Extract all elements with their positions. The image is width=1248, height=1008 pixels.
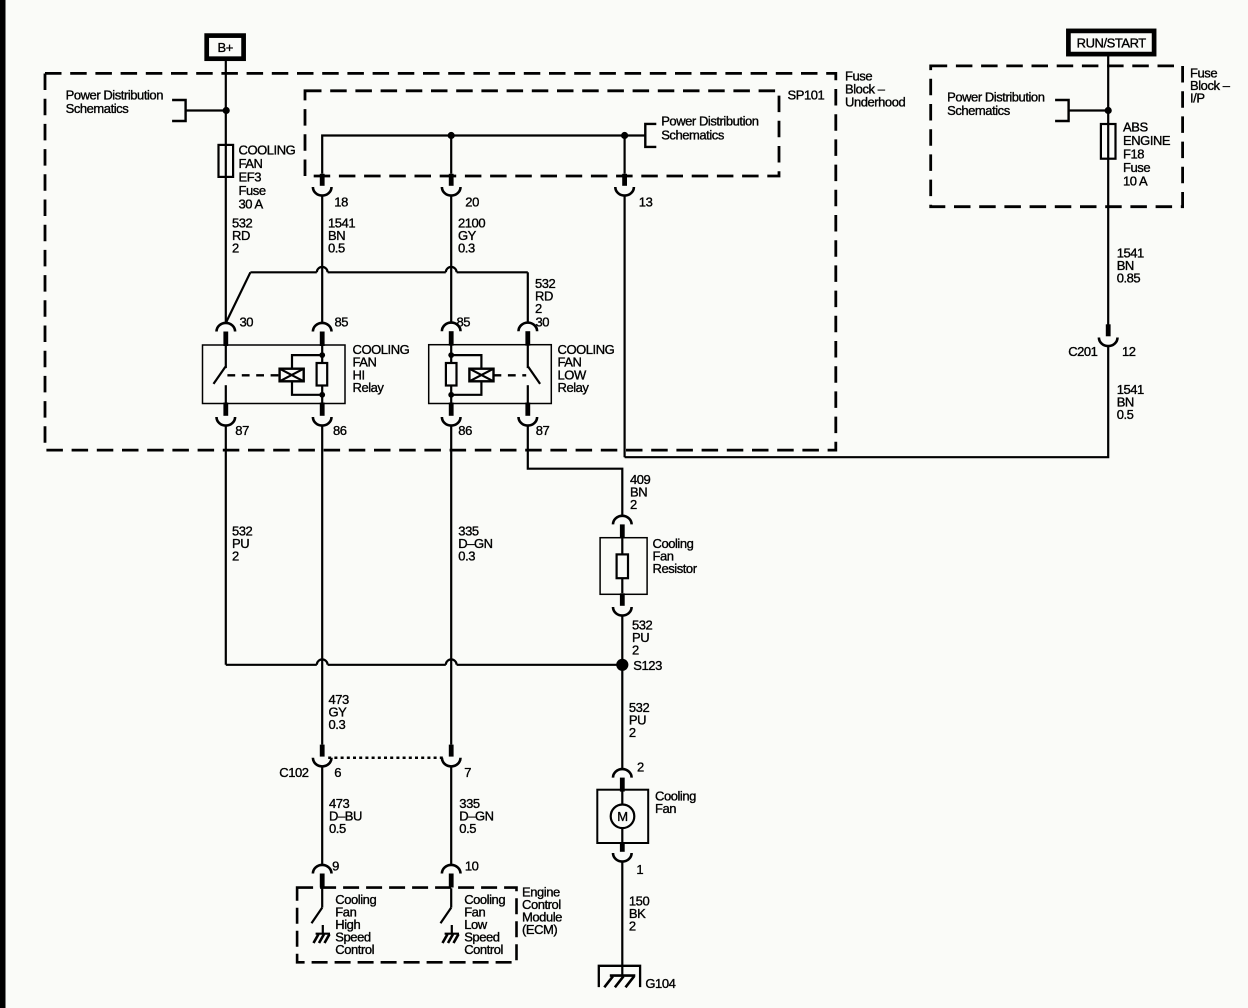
svg-text:Schematics: Schematics <box>661 127 725 142</box>
splice S123 <box>616 659 628 671</box>
wire from schematics bracket <box>186 109 226 111</box>
wire label 1541 BN 0.85 <box>1117 246 1144 286</box>
svg-text:C102: C102 <box>279 765 308 780</box>
junction <box>1105 107 1112 114</box>
svg-text:0.5: 0.5 <box>459 821 476 836</box>
wire B+ feed to HI relay pin 30 <box>225 59 227 323</box>
node Power Distribution Schematics (SP101) <box>645 114 759 147</box>
svg-text:2: 2 <box>630 497 637 512</box>
svg-text:I/P: I/P <box>1190 91 1205 106</box>
wire 532 PU 2 (S123 to fan) <box>621 665 623 769</box>
node Power Distribution Schematics (I/P) <box>947 90 1069 122</box>
svg-text:Schematics: Schematics <box>66 101 130 116</box>
svg-text:30 A: 30 A <box>239 197 264 212</box>
svg-text:Control: Control <box>335 942 374 957</box>
power node B+ <box>207 36 244 59</box>
wire 473 GY 0.3 label <box>329 692 350 732</box>
svg-text:20: 20 <box>465 194 479 209</box>
fuse block I/P dashed box <box>931 66 1183 207</box>
svg-text:Relay: Relay <box>558 380 590 395</box>
svg-text:Resistor: Resistor <box>653 561 698 576</box>
svg-text:SP101: SP101 <box>788 87 825 102</box>
connector terminal 20 <box>442 174 461 196</box>
connector C201 terminal 12 <box>1099 324 1118 346</box>
svg-text:87: 87 <box>235 423 249 438</box>
junction <box>223 107 230 114</box>
svg-text:(ECM): (ECM) <box>522 922 557 937</box>
ground G104 <box>599 966 676 991</box>
svg-text:0.5: 0.5 <box>328 241 345 256</box>
fuse EF3 COOLING FAN 30A <box>219 143 296 212</box>
label Fuse Block - I/P <box>1190 66 1231 106</box>
wire label 1541 BN 0.5 <box>1117 382 1144 422</box>
svg-text:Underhood: Underhood <box>845 95 905 110</box>
relay COOLING FAN LOW <box>429 314 615 438</box>
ECM switch cooling fan low speed control <box>441 888 452 923</box>
svg-text:S123: S123 <box>633 658 662 673</box>
wire 2100 GY 0.3 (20 to LOW relay 85) <box>450 196 452 323</box>
wire 532 PU 2 (HI 87 down) <box>225 426 227 665</box>
connector C102 terminal 6 <box>313 745 332 767</box>
svg-text:18: 18 <box>334 194 348 209</box>
svg-text:0.3: 0.3 <box>458 549 475 564</box>
svg-text:RUN/START: RUN/START <box>1077 36 1147 51</box>
power node RUN/START <box>1068 31 1154 54</box>
wire from schematics bracket <box>1069 109 1109 111</box>
svg-text:86: 86 <box>458 423 472 438</box>
svg-text:12: 12 <box>1122 344 1136 359</box>
svg-text:85: 85 <box>335 314 349 329</box>
wire label 532 PU 2 (resistor to S123) <box>621 616 623 665</box>
svg-text:1: 1 <box>636 862 643 877</box>
svg-text:2: 2 <box>637 759 644 774</box>
wire 473 D-BU 0.5 <box>321 766 323 865</box>
svg-text:7: 7 <box>464 765 471 780</box>
svg-text:13: 13 <box>639 194 653 209</box>
svg-text:2: 2 <box>232 549 239 564</box>
svg-text:Schematics: Schematics <box>947 103 1011 118</box>
wire RUN/START to C201 <box>1107 54 1109 325</box>
connector terminal 18 <box>313 174 332 196</box>
junction <box>621 132 628 139</box>
svg-text:Control: Control <box>464 942 503 957</box>
svg-text:G104: G104 <box>645 976 675 991</box>
svg-text:2: 2 <box>629 919 636 934</box>
label Fuse Block - Underhood <box>845 69 905 110</box>
ground (ECM high side) <box>314 925 331 943</box>
ECM switch cooling fan high speed control <box>312 888 323 923</box>
connector terminal 9 <box>313 865 332 888</box>
connector terminal 13 <box>615 174 634 196</box>
svg-text:30: 30 <box>536 314 550 329</box>
wire S123 bus <box>226 659 623 664</box>
fuse block underhood dashed box <box>45 73 836 450</box>
wire SP101 bus <box>322 136 645 174</box>
wire 532 RD coil-feed bus <box>250 267 527 272</box>
svg-text:2: 2 <box>629 725 636 740</box>
connector C102 terminal 7 <box>442 745 461 767</box>
junction <box>448 132 455 139</box>
svg-text:0.85: 0.85 <box>1117 271 1141 286</box>
label Engine Control Module (ECM) <box>522 885 562 938</box>
wire 1541 BN run (C201 to conn 13) <box>625 346 1109 457</box>
svg-text:0.3: 0.3 <box>458 241 475 256</box>
svg-text:M: M <box>617 809 627 824</box>
wire 335 D-GN 0.3 (LOW 86 down) <box>450 426 452 745</box>
svg-text:0.5: 0.5 <box>329 821 346 836</box>
svg-text:B+: B+ <box>218 40 233 55</box>
wire 335 D-GN 0.5 <box>450 766 452 865</box>
svg-text:Relay: Relay <box>353 380 385 395</box>
connector terminal 10 <box>442 865 461 888</box>
svg-text:2: 2 <box>632 642 639 657</box>
splice pack SP101 dashed box <box>305 91 779 176</box>
wire label 532 RD 2 (to LOW relay 30) <box>535 276 556 316</box>
wire 150 BK 2 <box>621 862 623 976</box>
svg-text:10 A: 10 A <box>1123 174 1148 189</box>
svg-text:86: 86 <box>333 423 347 438</box>
wire label 532 RD 2 <box>232 216 253 256</box>
svg-text:9: 9 <box>332 859 339 874</box>
svg-text:10: 10 <box>465 859 479 874</box>
node Power Distribution Schematics (B+) <box>66 88 186 122</box>
svg-text:0.3: 0.3 <box>329 717 346 732</box>
connector C102 dotted pair line <box>328 757 445 760</box>
svg-text:Fan: Fan <box>655 801 676 816</box>
wire 1541 BN 0.5 (18 to HI relay 85) <box>321 196 323 323</box>
svg-text:0.5: 0.5 <box>1117 407 1134 422</box>
ECM dashed box <box>297 888 516 963</box>
motor Cooling Fan <box>597 769 696 862</box>
resistor assembly Cooling Fan Resistor <box>600 516 698 616</box>
ground (ECM low side) <box>443 925 460 943</box>
svg-text:6: 6 <box>334 765 341 780</box>
svg-text:C201: C201 <box>1068 344 1097 359</box>
wire 473 GY (HI 86 down) <box>321 426 323 745</box>
fuse F18 ABS ENGINE 10A <box>1101 119 1171 188</box>
wire 409 BN 2 (LOW 87 to resistor) <box>528 426 623 516</box>
svg-text:30: 30 <box>240 314 254 329</box>
wire 13 drop to 1541 BN run <box>623 196 625 458</box>
relay COOLING FAN HI <box>203 314 410 438</box>
svg-text:85: 85 <box>457 314 471 329</box>
svg-text:2: 2 <box>232 241 239 256</box>
svg-text:87: 87 <box>536 423 550 438</box>
